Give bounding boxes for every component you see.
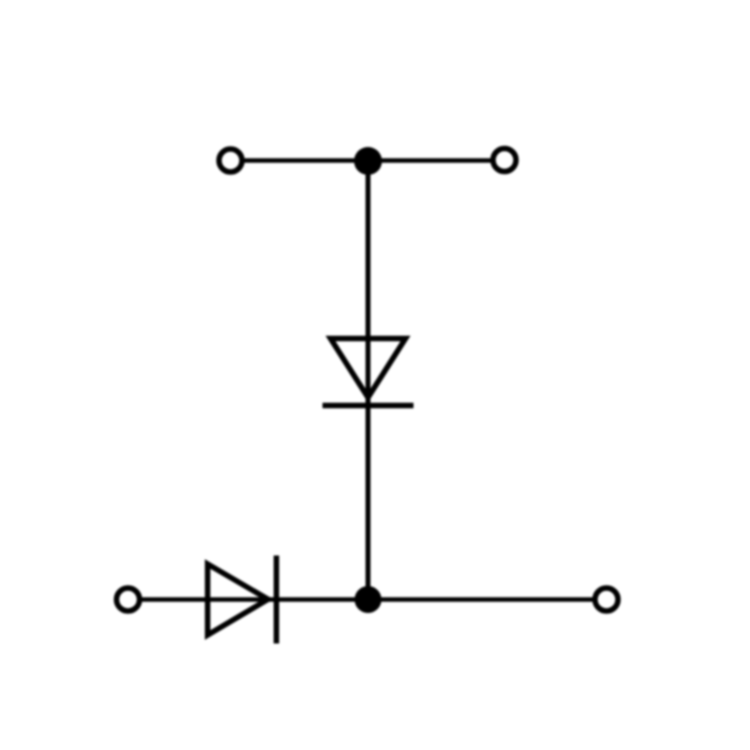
diode D2 (horizontal, cathode right) <box>208 556 277 644</box>
junction dot top <box>354 147 382 175</box>
terminal top-right <box>493 149 516 172</box>
wire vertical from top junction to bottom junction <box>366 161 371 600</box>
diode D1 (vertical, cathode down) <box>323 339 414 406</box>
junction dot bottom <box>355 586 382 613</box>
wire bottom rail <box>128 597 607 602</box>
terminal top-left <box>219 149 242 172</box>
terminal bottom-left <box>117 588 140 611</box>
wire top rail <box>230 158 505 163</box>
terminal bottom-right <box>595 588 618 611</box>
